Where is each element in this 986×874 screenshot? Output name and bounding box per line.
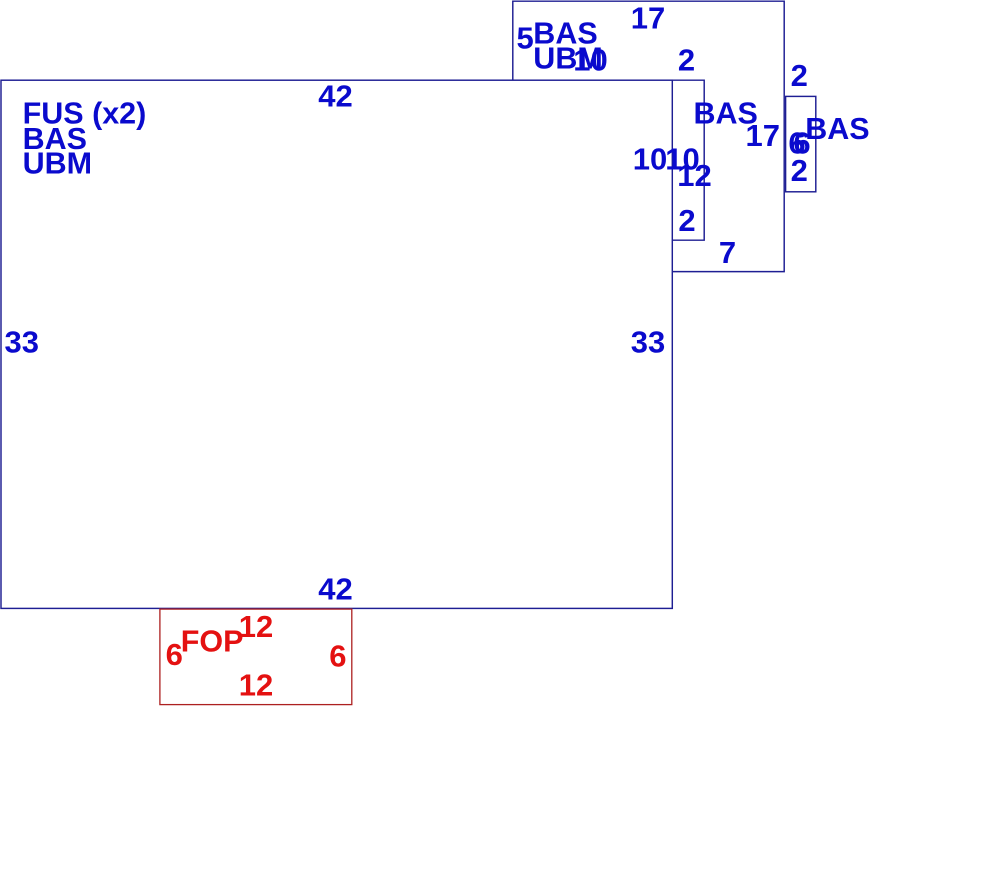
panel FUS/BAS/UBM main rectangle 42x33 [1,80,672,608]
svg-text:33: 33 [5,325,39,360]
svg-text:5: 5 [516,21,533,56]
svg-text:2: 2 [791,58,808,93]
panel BAS right small rectangle 2x6 [786,96,816,191]
panel FOP red rectangle 12x6 [160,609,352,705]
svg-text:7: 7 [719,235,736,270]
svg-text:42: 42 [318,572,352,607]
svg-text:10: 10 [633,141,667,176]
panel BAS/UBM top rectangle 17x17 (partially hidden) [513,1,784,271]
svg-text:6: 6 [329,639,346,674]
svg-text:2: 2 [678,203,695,238]
svg-text:2: 2 [678,43,695,78]
svg-text:42: 42 [318,79,352,114]
svg-text:33: 33 [631,325,665,360]
svg-text:BAS: BAS [805,112,869,146]
panel BAS narrow rectangle 2x10 [673,80,705,240]
svg-text:12: 12 [677,158,711,193]
svg-text:10: 10 [573,43,607,78]
svg-text:17: 17 [631,1,665,36]
svg-text:12: 12 [239,668,273,703]
svg-text:2: 2 [791,153,808,188]
svg-text:FOP: FOP [181,625,244,659]
svg-text:UBM: UBM [23,146,92,180]
svg-text:BAS: BAS [694,96,758,130]
svg-text:12: 12 [239,609,273,644]
